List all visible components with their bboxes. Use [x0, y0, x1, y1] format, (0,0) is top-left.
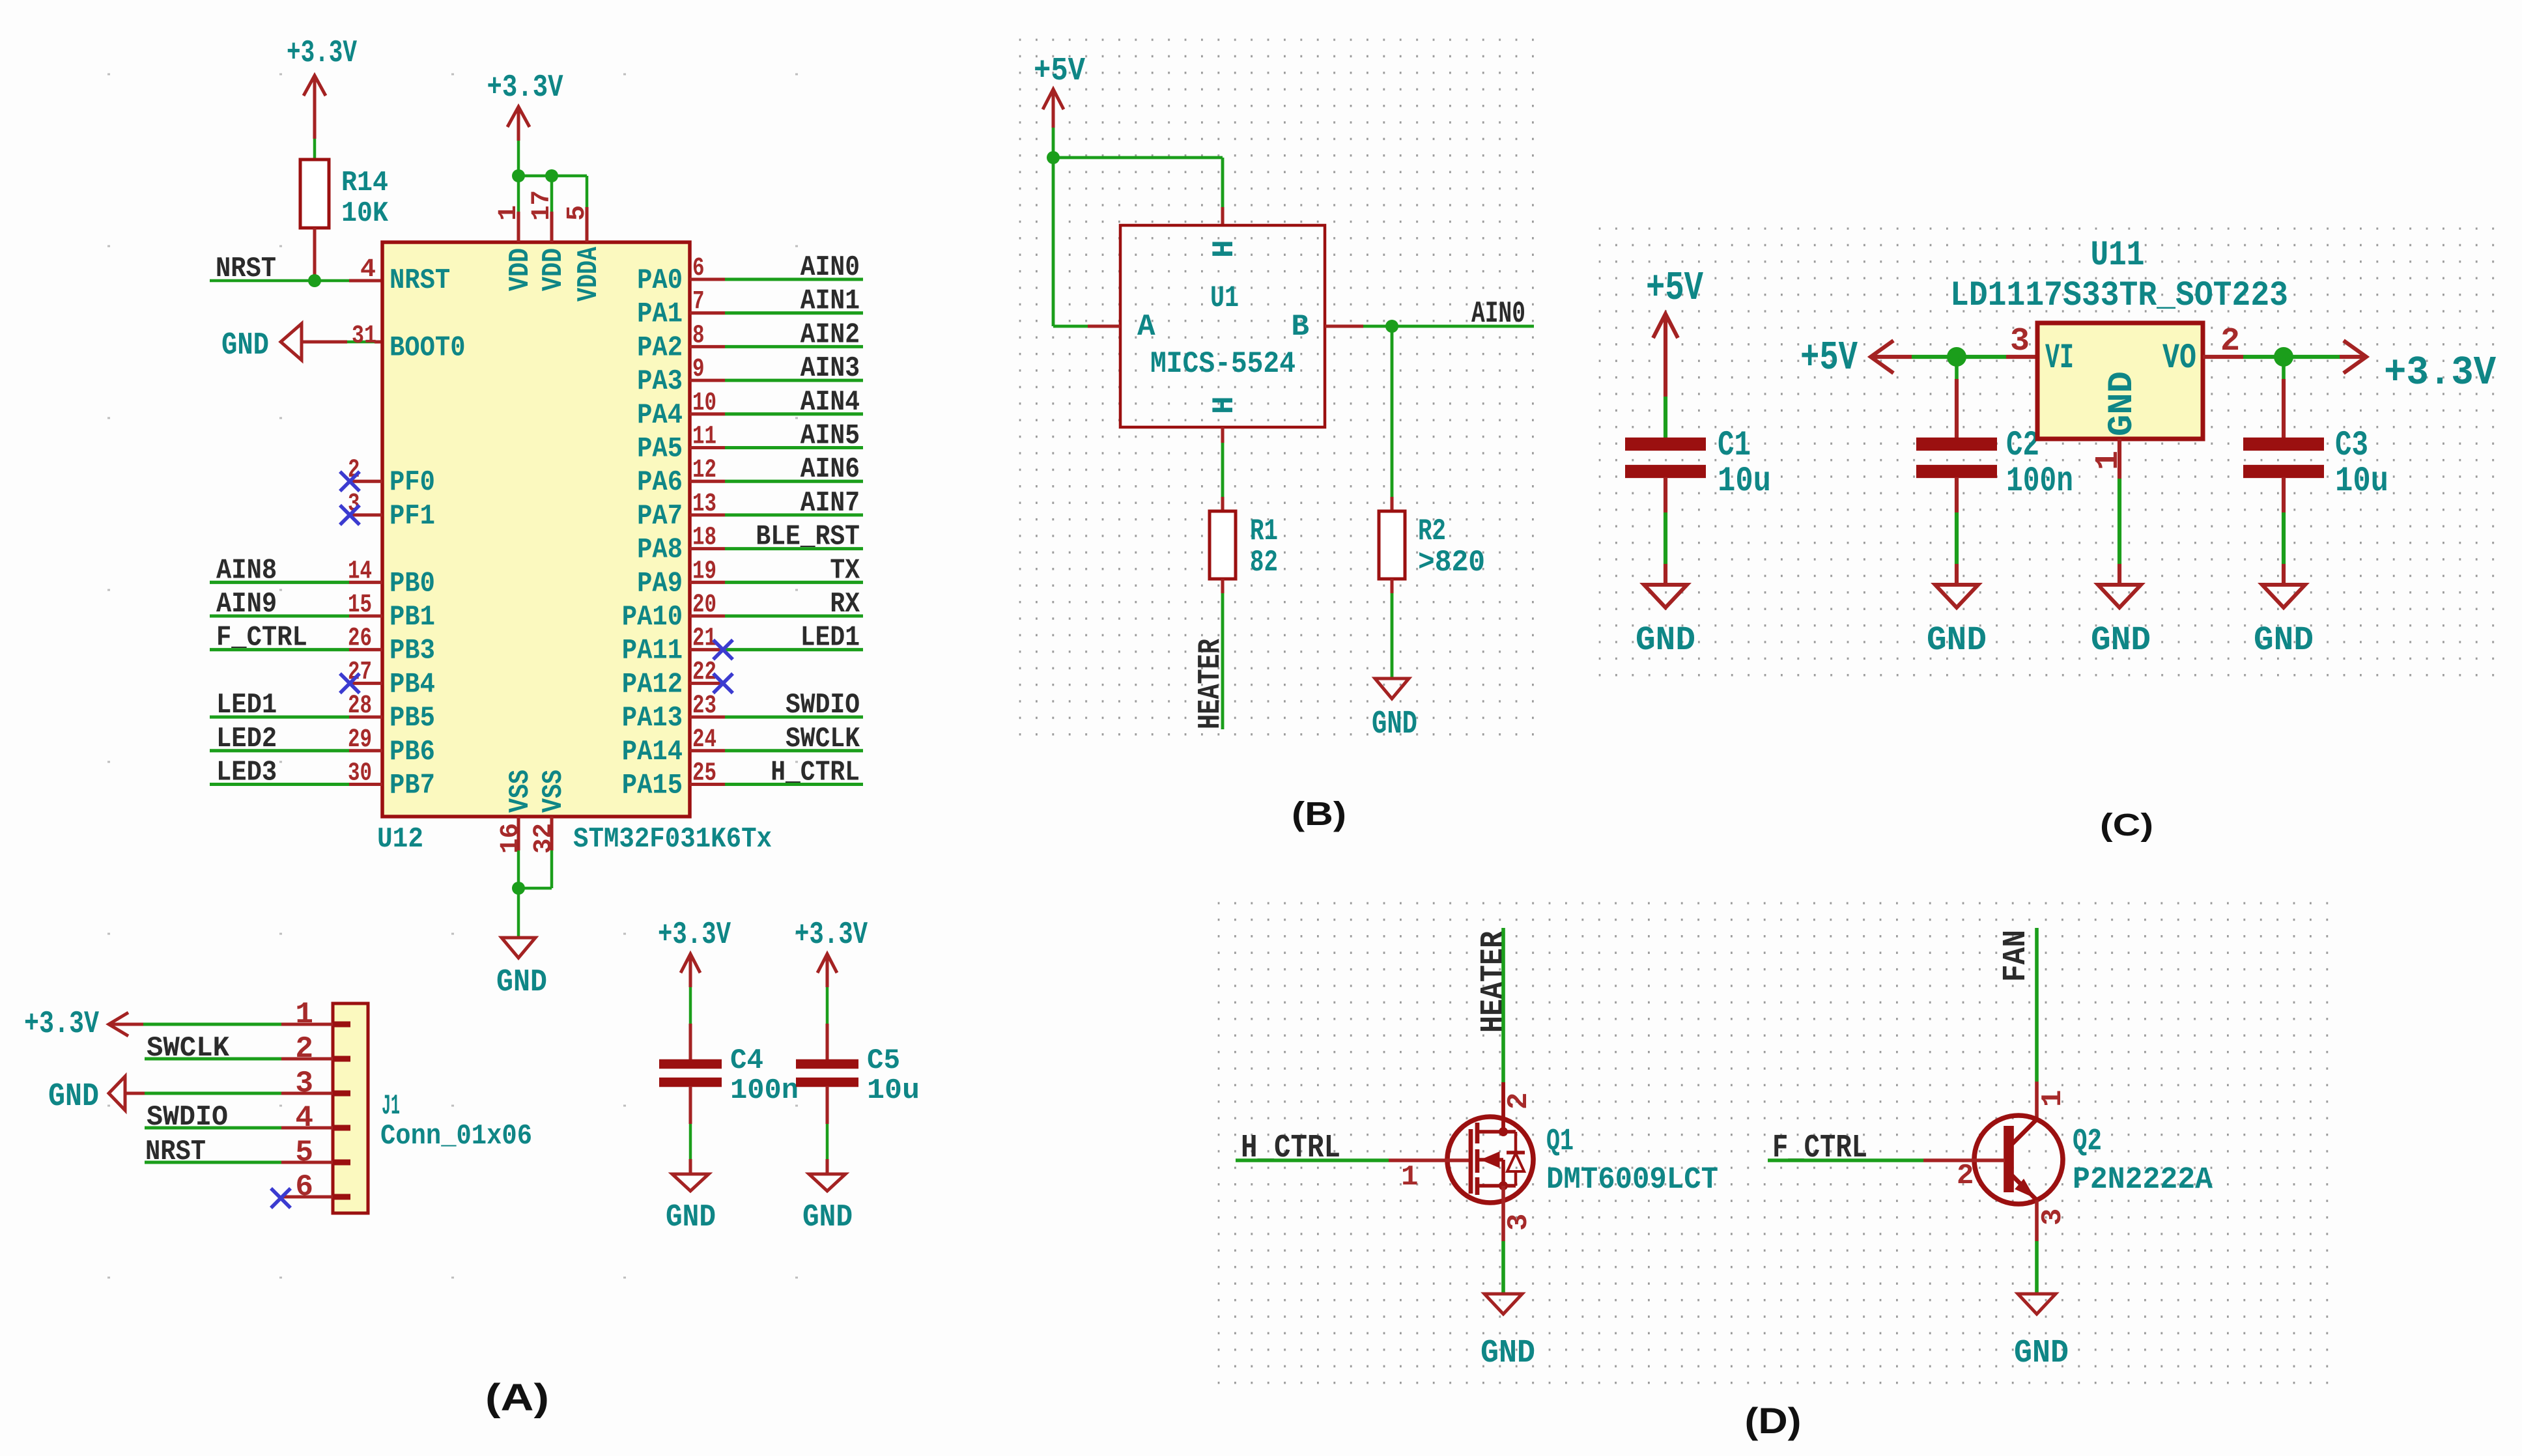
svg-text:(D): (D)	[1745, 1400, 1802, 1441]
svg-text:20: 20	[692, 591, 716, 620]
svg-text:+3.3V: +3.3V	[795, 917, 868, 953]
svg-text:AIN8: AIN8	[216, 554, 277, 587]
svg-text:PA11: PA11	[622, 635, 683, 667]
svg-text:R2: R2	[1418, 514, 1446, 548]
svg-text:AIN7: AIN7	[801, 487, 860, 520]
svg-text:PA10: PA10	[622, 601, 683, 634]
svg-text:28: 28	[348, 692, 372, 721]
svg-text:HEATER: HEATER	[1193, 639, 1228, 729]
svg-text:PA1: PA1	[637, 298, 683, 331]
svg-text:GND: GND	[1927, 621, 1987, 660]
svg-text:PA0: PA0	[637, 264, 683, 297]
svg-text:12: 12	[692, 456, 716, 485]
svg-text:PA6: PA6	[637, 466, 683, 499]
svg-text:PF0: PF0	[390, 466, 435, 499]
svg-text:PF1: PF1	[390, 500, 435, 533]
svg-text:23: 23	[692, 692, 716, 721]
svg-text:PA15: PA15	[622, 770, 683, 802]
svg-text:AIN4: AIN4	[801, 386, 860, 419]
svg-text:16: 16	[496, 823, 526, 854]
svg-text:MICS-5524: MICS-5524	[1150, 347, 1296, 381]
svg-text:VDDA: VDDA	[573, 247, 605, 301]
svg-text:PA5: PA5	[637, 433, 683, 466]
svg-text:10u: 10u	[867, 1074, 920, 1107]
svg-text:>820: >820	[1418, 546, 1485, 580]
svg-text:25: 25	[692, 759, 716, 789]
svg-text:GND: GND	[666, 1200, 716, 1235]
svg-text:100n: 100n	[730, 1074, 799, 1107]
svg-text:10K: 10K	[341, 197, 389, 230]
svg-text:PB3: PB3	[390, 635, 435, 667]
svg-text:18: 18	[692, 524, 716, 553]
svg-text:1: 1	[1401, 1161, 1418, 1194]
svg-text:R14: R14	[341, 167, 388, 199]
svg-text:VDD: VDD	[537, 248, 570, 291]
svg-text:3: 3	[295, 1067, 313, 1100]
svg-text:BOOT0: BOOT0	[390, 331, 466, 364]
svg-text:PB1: PB1	[390, 601, 435, 634]
svg-text:Conn_01x06: Conn_01x06	[380, 1120, 532, 1153]
svg-text:2: 2	[1957, 1160, 1974, 1192]
svg-text:GND: GND	[2103, 371, 2142, 436]
svg-text:AIN2: AIN2	[801, 318, 860, 351]
svg-text:PB5: PB5	[390, 702, 435, 735]
svg-text:100n: 100n	[2006, 462, 2073, 501]
svg-text:U1: U1	[1210, 281, 1239, 315]
svg-text:PA3: PA3	[637, 365, 683, 398]
svg-text:5: 5	[295, 1136, 313, 1169]
svg-text:30: 30	[348, 759, 372, 789]
svg-text:GND: GND	[1372, 706, 1417, 743]
svg-text:+3.3V: +3.3V	[24, 1007, 99, 1042]
svg-text:GND: GND	[2091, 621, 2151, 660]
svg-text:GND: GND	[2014, 1335, 2069, 1372]
svg-text:3: 3	[2037, 1209, 2069, 1225]
svg-text:H: H	[1208, 396, 1241, 414]
svg-text:+3.3V: +3.3V	[2384, 350, 2497, 396]
svg-text:+5V: +5V	[1034, 53, 1085, 90]
svg-text:10u: 10u	[2335, 462, 2388, 501]
svg-text:82: 82	[1250, 546, 1278, 580]
svg-text:2: 2	[295, 1032, 313, 1066]
svg-text:VI: VI	[2045, 339, 2074, 378]
svg-text:+5V: +5V	[1800, 335, 1858, 381]
svg-text:19: 19	[692, 557, 716, 586]
svg-text:A: A	[1137, 310, 1155, 344]
svg-text:DMT6009LCT: DMT6009LCT	[1546, 1163, 1718, 1197]
svg-text:VO: VO	[2162, 339, 2196, 378]
svg-text:PA7: PA7	[637, 500, 683, 533]
svg-text:U11: U11	[2091, 236, 2145, 275]
svg-text:Q2: Q2	[2073, 1125, 2102, 1159]
svg-text:NRST: NRST	[216, 253, 276, 285]
svg-text:6: 6	[295, 1170, 313, 1204]
svg-text:7: 7	[692, 288, 705, 317]
svg-text:8: 8	[692, 321, 705, 350]
svg-text:LED3: LED3	[216, 757, 277, 789]
svg-text:B: B	[1291, 310, 1309, 344]
svg-text:C3: C3	[2335, 426, 2368, 466]
svg-text:AIN0: AIN0	[1471, 297, 1525, 331]
svg-text:10: 10	[692, 389, 716, 418]
svg-text:31: 31	[352, 322, 376, 351]
svg-text:F_CTRL: F_CTRL	[216, 622, 307, 654]
svg-text:+3.3V: +3.3V	[487, 70, 563, 105]
svg-text:U12: U12	[377, 823, 423, 856]
svg-text:(C): (C)	[2100, 808, 2153, 843]
svg-text:+3.3V: +3.3V	[287, 36, 357, 71]
svg-text:VDD: VDD	[504, 248, 537, 291]
svg-text:GND: GND	[802, 1200, 853, 1235]
svg-text:32: 32	[530, 823, 559, 854]
svg-text:4: 4	[295, 1101, 313, 1135]
svg-text:PB4: PB4	[390, 668, 435, 701]
svg-text:AIN9: AIN9	[216, 588, 277, 621]
svg-text:GND: GND	[1636, 621, 1695, 660]
svg-text:15: 15	[348, 591, 372, 620]
svg-text:1: 1	[295, 998, 313, 1031]
svg-text:SWDIO: SWDIO	[786, 689, 860, 721]
svg-text:24: 24	[692, 725, 716, 755]
svg-text:LED1: LED1	[801, 622, 860, 654]
svg-text:17: 17	[528, 190, 557, 221]
svg-text:AIN1: AIN1	[801, 285, 860, 318]
svg-text:PA9: PA9	[637, 567, 683, 600]
svg-text:22: 22	[692, 658, 716, 687]
svg-text:+5V: +5V	[1646, 265, 1704, 311]
svg-text:2: 2	[2220, 323, 2240, 360]
svg-text:PB0: PB0	[390, 567, 435, 600]
svg-text:10u: 10u	[1718, 462, 1771, 501]
svg-text:AIN3: AIN3	[801, 352, 860, 385]
svg-text:H: H	[1208, 240, 1241, 258]
svg-text:RX: RX	[830, 588, 860, 621]
svg-text:GND: GND	[496, 965, 547, 1000]
svg-text:C4: C4	[730, 1044, 763, 1077]
svg-text:C2: C2	[2006, 426, 2039, 466]
svg-text:11: 11	[692, 423, 716, 452]
svg-text:3: 3	[1503, 1214, 1535, 1231]
svg-text:AIN6: AIN6	[801, 453, 860, 486]
svg-text:TX: TX	[830, 554, 860, 587]
svg-text:(B): (B)	[1292, 795, 1346, 832]
svg-text:1: 1	[2090, 451, 2127, 470]
svg-text:PA12: PA12	[622, 668, 683, 701]
svg-text:PA14: PA14	[622, 736, 683, 768]
svg-text:(A): (A)	[485, 1377, 549, 1419]
svg-text:HEATER: HEATER	[1475, 931, 1512, 1033]
svg-text:J1: J1	[382, 1090, 400, 1123]
svg-text:GND: GND	[48, 1078, 99, 1115]
svg-text:H_CTRL: H_CTRL	[771, 757, 860, 789]
svg-text:+3.3V: +3.3V	[658, 917, 731, 953]
svg-text:PA2: PA2	[637, 331, 683, 364]
svg-text:1: 1	[494, 205, 524, 221]
svg-text:PB6: PB6	[390, 736, 435, 768]
svg-text:AIN0: AIN0	[801, 251, 860, 284]
svg-text:14: 14	[348, 557, 372, 586]
svg-text:LED2: LED2	[216, 723, 277, 755]
svg-text:5: 5	[563, 205, 592, 221]
svg-text:LD1117S33TR_SOT223: LD1117S33TR_SOT223	[1950, 276, 2288, 316]
svg-text:PA4: PA4	[637, 399, 683, 432]
svg-text:P2N2222A: P2N2222A	[2073, 1163, 2213, 1197]
svg-text:R1: R1	[1250, 514, 1278, 548]
svg-text:SWCLK: SWCLK	[786, 723, 860, 755]
svg-text:AIN5: AIN5	[801, 420, 860, 453]
svg-text:PB7: PB7	[390, 770, 435, 802]
svg-text:Q1: Q1	[1546, 1125, 1574, 1159]
svg-text:NRST: NRST	[390, 264, 450, 297]
svg-text:2: 2	[1503, 1093, 1535, 1110]
svg-text:4: 4	[360, 255, 376, 285]
svg-text:STM32F031K6Tx: STM32F031K6Tx	[573, 823, 772, 856]
svg-text:VSS: VSS	[537, 770, 570, 813]
svg-text:PA13: PA13	[622, 702, 683, 735]
svg-text:BLE_RST: BLE_RST	[756, 521, 860, 553]
svg-text:C1: C1	[1718, 426, 1751, 466]
svg-text:FAN: FAN	[1998, 930, 2035, 982]
svg-text:29: 29	[348, 725, 372, 755]
svg-text:3: 3	[2010, 323, 2030, 360]
svg-text:9: 9	[692, 355, 705, 384]
svg-text:26: 26	[348, 624, 372, 654]
svg-text:GND: GND	[1481, 1335, 1535, 1372]
svg-text:GND: GND	[221, 328, 269, 363]
svg-text:GND: GND	[2254, 621, 2314, 660]
svg-text:C5: C5	[867, 1044, 900, 1077]
svg-text:PA8: PA8	[637, 534, 683, 567]
svg-text:13: 13	[692, 490, 716, 519]
svg-text:21: 21	[692, 624, 716, 654]
svg-text:VSS: VSS	[504, 770, 537, 813]
svg-text:1: 1	[2037, 1090, 2069, 1107]
svg-text:LED1: LED1	[216, 689, 277, 721]
svg-text:6: 6	[692, 254, 705, 283]
